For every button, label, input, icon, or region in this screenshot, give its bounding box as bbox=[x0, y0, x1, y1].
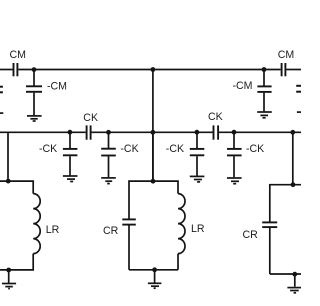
wire top rail left segment bbox=[0, 69, 13, 71]
wire top rail middle segment bbox=[18, 69, 280, 71]
capacitor at right edge (cut off) bbox=[296, 86, 301, 92]
capacitor CR1 bbox=[122, 219, 136, 224]
wire ground stub C bbox=[294, 274, 296, 287]
wire rail A from mid rail down bbox=[7, 132, 9, 181]
svg-text:CK: CK bbox=[83, 112, 98, 124]
node junction mid 5 bbox=[232, 130, 237, 135]
wire -CM2 lower lead bbox=[263, 93, 265, 112]
wire -CK2 lower lead bbox=[108, 156, 110, 177]
wire LR2 lower lead bbox=[177, 254, 179, 270]
wire -CK4 lower lead bbox=[233, 156, 235, 177]
svg-text:CR: CR bbox=[103, 225, 119, 237]
svg-text:-CM: -CM bbox=[47, 81, 67, 93]
node junction B top bbox=[151, 179, 156, 184]
svg-text:LR: LR bbox=[46, 224, 60, 236]
wire -CK1 lower lead bbox=[69, 156, 71, 175]
node junction C top bbox=[291, 182, 296, 187]
svg-text:CK: CK bbox=[208, 111, 223, 123]
ground section B bbox=[148, 283, 162, 288]
wire rail C from mid rail down bbox=[292, 132, 294, 184]
wire -CK2 upper lead bbox=[108, 132, 110, 148]
wire mid rail left segment bbox=[0, 131, 86, 133]
wire section C top (CR2 to right edge) bbox=[270, 185, 301, 222]
wire section B bottom bbox=[129, 269, 178, 271]
wire CR1 lower lead bbox=[128, 226, 130, 270]
wire -CM2 upper lead bbox=[263, 70, 265, 86]
wire mid rail middle segment bbox=[92, 131, 213, 133]
node junction A bottom bbox=[6, 268, 11, 273]
node junction mid 4 bbox=[195, 130, 200, 135]
ground under -CK4 bbox=[227, 178, 242, 184]
node junction mid 1 bbox=[68, 130, 73, 135]
wire section A bottom (LR1 to left edge) bbox=[0, 254, 33, 270]
wire vertical rail x=153 from top to node B2 bbox=[152, 70, 154, 182]
capacitor -CK2 (shunt) bbox=[101, 149, 116, 156]
wire section A top (left edge to LR1) bbox=[0, 181, 33, 194]
capacitor -CM2 (shunt) bbox=[257, 86, 271, 92]
wire ground stub B bbox=[154, 270, 156, 283]
ground under -CM2 bbox=[257, 112, 272, 118]
ground section A bbox=[2, 284, 16, 289]
wire -CK3 upper lead bbox=[196, 132, 198, 148]
node junction C bottom bbox=[292, 272, 297, 277]
inductor LR2 bbox=[178, 194, 185, 254]
svg-text:-CM: -CM bbox=[233, 80, 253, 92]
wire -CM1 lower lead bbox=[33, 93, 35, 116]
ground at right edge (cut off) bbox=[297, 111, 301, 113]
svg-text:-CK: -CK bbox=[246, 143, 264, 155]
ground under -CM1 bbox=[27, 116, 42, 121]
capacitor CK2 (series, mid-right) bbox=[214, 125, 219, 139]
wire CR2 lower lead bbox=[269, 228, 271, 274]
wire -CK3 lower lead bbox=[196, 156, 198, 176]
inductor LR1 bbox=[33, 194, 40, 254]
svg-text:-CK: -CK bbox=[120, 143, 138, 155]
ground at left edge (cut off) bbox=[0, 112, 3, 114]
wire ground stub A bbox=[8, 270, 10, 283]
capacitor at left edge (cut off) bbox=[0, 87, 3, 93]
ground section C bbox=[287, 288, 301, 293]
capacitor CM2 (series, top-right) bbox=[282, 63, 286, 76]
wire -CK1 upper lead bbox=[69, 132, 71, 148]
wire section B top (CR1 to LR2) bbox=[129, 181, 178, 219]
wire -CM1 upper lead bbox=[33, 70, 35, 86]
node junction top A bbox=[32, 67, 37, 72]
svg-text:-CK: -CK bbox=[166, 143, 184, 155]
capacitor -CK4 (shunt) bbox=[227, 149, 242, 156]
svg-text:CR: CR bbox=[243, 229, 259, 241]
wire section C bottom bbox=[270, 273, 301, 275]
capacitor -CM1 (shunt) bbox=[26, 86, 42, 92]
capacitor -CK1 (shunt) bbox=[63, 149, 78, 155]
svg-text:LR: LR bbox=[191, 223, 205, 235]
svg-text:-CK: -CK bbox=[39, 143, 57, 155]
node junction mid 3 bbox=[151, 130, 156, 135]
wire mid rail right segment bbox=[219, 131, 301, 133]
node junction A top bbox=[6, 179, 11, 184]
node junction top B bbox=[151, 67, 156, 72]
capacitor CR2 bbox=[262, 222, 277, 227]
node junction mid 2 bbox=[106, 130, 111, 135]
ground under -CK3 bbox=[190, 176, 205, 182]
ground under -CK1 bbox=[63, 176, 78, 182]
svg-text:CM: CM bbox=[10, 49, 26, 61]
node junction B bottom bbox=[152, 267, 157, 272]
wire rail B from mid rail down bbox=[152, 132, 154, 181]
wire top rail right segment bbox=[286, 69, 301, 71]
capacitor CK1 (series, mid-left) bbox=[87, 125, 91, 139]
node junction mid 6 bbox=[290, 130, 295, 135]
node junction top C bbox=[262, 67, 267, 72]
capacitor CM1 (series, top-left) bbox=[14, 63, 18, 76]
svg-text:CM: CM bbox=[278, 49, 294, 61]
ground under -CK2 bbox=[101, 178, 116, 184]
capacitor -CK3 (shunt) bbox=[190, 149, 205, 155]
wire -CK4 upper lead bbox=[233, 132, 235, 148]
